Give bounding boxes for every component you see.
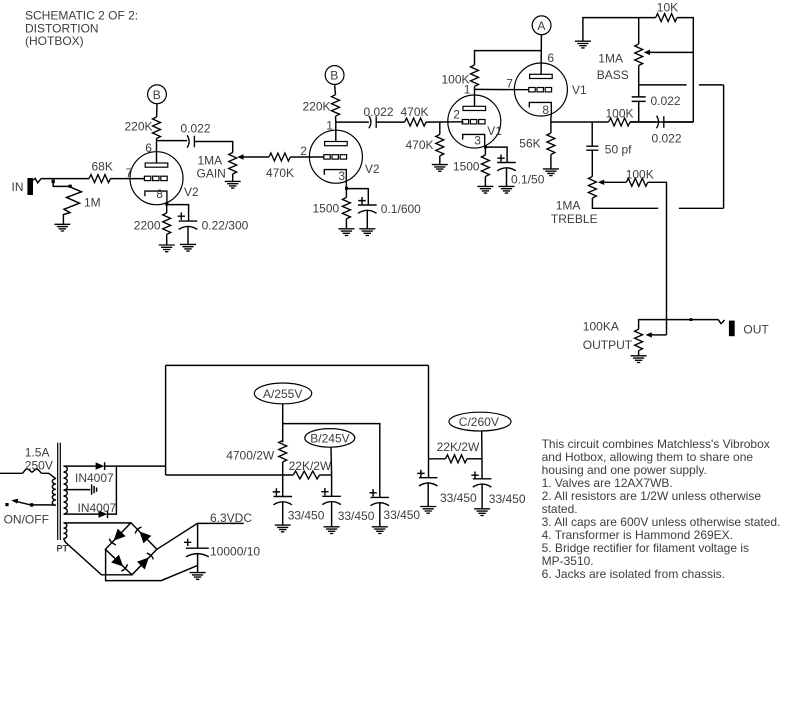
capacitor C 0.022 (1st coupling) xyxy=(181,122,211,148)
wire cap to ground xyxy=(197,554,199,573)
resistor R 100K (treble tap) xyxy=(626,167,654,186)
resistor R 68K xyxy=(89,160,113,183)
wire bridge DC- to filter xyxy=(106,549,198,580)
svg-text:0.022: 0.022 xyxy=(364,105,394,119)
svg-text:1500: 1500 xyxy=(313,202,340,216)
svg-text:2: 2 xyxy=(300,144,307,158)
node B supply (1st stage) xyxy=(148,85,167,104)
wire wiper to 470K xyxy=(243,156,269,158)
wire V1b cathode pin8 down xyxy=(550,117,552,123)
svg-text:IN4007: IN4007 xyxy=(78,501,117,515)
svg-text:TREBLE: TREBLE xyxy=(551,212,598,226)
wire 470K leak to ground xyxy=(439,156,441,165)
svg-text:IN4007: IN4007 xyxy=(75,471,114,485)
svg-text:10K: 10K xyxy=(657,1,678,15)
wire 6.3VDC rail xyxy=(197,511,252,525)
svg-text:0.1/600: 0.1/600 xyxy=(381,202,421,216)
svg-text:1: 1 xyxy=(326,118,333,132)
wire cap to ground xyxy=(506,168,508,187)
resistor R 100K (V1a plate) xyxy=(442,65,479,90)
ground (cap1) xyxy=(275,525,291,532)
resistor R 100K (tone) xyxy=(606,107,634,126)
svg-text:3: 3 xyxy=(338,169,345,183)
diode D2 IN4007 xyxy=(78,501,117,518)
wire output pot top to jack xyxy=(639,320,719,330)
svg-text:GAIN: GAIN xyxy=(197,167,226,181)
svg-text:B/245V: B/245V xyxy=(310,431,349,445)
svg-text:MP-3510.: MP-3510. xyxy=(542,554,594,568)
svg-text:470K: 470K xyxy=(266,166,294,180)
ground (470K leak) xyxy=(432,165,448,172)
capacitor C 0.1/50 xyxy=(497,155,544,187)
wire diode D1 to B+ rail xyxy=(105,465,166,467)
ground (0.1/600) xyxy=(359,229,375,236)
resistor R 22K/2W (C) xyxy=(437,440,480,463)
wire diode D2 up to junction xyxy=(108,466,117,514)
wiper arrow (bass) xyxy=(644,50,694,55)
wire cathode to cap 0.22/300 xyxy=(167,205,189,222)
cathode network V2b: junction node xyxy=(345,187,348,190)
svg-text:B: B xyxy=(330,69,338,83)
transformer PT HV secondary xyxy=(64,466,68,514)
svg-text:1. Valves are 12AX7WB.: 1. Valves are 12AX7WB. xyxy=(542,476,673,490)
transformer PT filament secondary xyxy=(64,523,67,539)
svg-text:0.022: 0.022 xyxy=(651,94,681,108)
wire 220K to plate junction xyxy=(335,116,337,122)
svg-text:PT: PT xyxy=(57,543,69,553)
wiper arrow (gain) xyxy=(237,154,243,159)
svg-text:4. Transformer is Hammond 269E: 4. Transformer is Hammond 269EX. xyxy=(542,528,733,542)
wire cap2 ground xyxy=(331,502,333,527)
svg-text:6.3VDC: 6.3VDC xyxy=(210,511,252,525)
capacitor C 50pf xyxy=(586,122,632,157)
fuse F1 1.5A 250V xyxy=(0,445,53,473)
svg-text:33/450: 33/450 xyxy=(440,491,477,505)
node B/245V xyxy=(305,429,355,448)
svg-text:0.022: 0.022 xyxy=(181,122,211,136)
svg-text:50 pf: 50 pf xyxy=(605,143,632,157)
wire B+ top rail xyxy=(166,364,429,366)
wire top rail down to C section xyxy=(428,365,430,458)
node A/255V xyxy=(254,383,311,404)
wire input to 68K xyxy=(41,178,89,180)
svg-text:0.22/300: 0.22/300 xyxy=(202,219,249,233)
ground (2200) xyxy=(159,245,175,252)
bridge diode (lower right) xyxy=(137,553,153,569)
wire C section junction xyxy=(429,458,446,460)
wire right outer vertical xyxy=(723,85,725,208)
resistor R 2200 xyxy=(134,205,171,234)
wire A to V1b plate pin6 xyxy=(540,35,542,75)
wire B+ bottom rail xyxy=(166,474,294,476)
svg-text:220K: 220K xyxy=(303,100,331,114)
resistor R 10K xyxy=(656,1,679,22)
ground (1500 V1a) xyxy=(477,186,493,193)
wire V1a pin1 to V1b grid pin7 xyxy=(475,88,530,90)
resistor R 1M (diagonal) xyxy=(63,187,100,224)
wire 1500 to ground xyxy=(345,219,347,229)
svg-text:V2: V2 xyxy=(184,185,199,199)
ground (capC) xyxy=(474,509,490,516)
resistor R 470K (grid leak) xyxy=(406,122,444,156)
potentiometer VR 100KA OUTPUT xyxy=(583,320,643,352)
svg-text:0.1/50: 0.1/50 xyxy=(511,173,545,187)
svg-text:3: 3 xyxy=(474,134,481,148)
capacitor C 0.022 (treble) xyxy=(652,116,682,146)
tube V1a xyxy=(448,83,503,149)
ground (output pot) xyxy=(631,356,647,363)
wire bass cap leads xyxy=(638,85,640,122)
svg-text:stated.: stated. xyxy=(542,502,578,516)
potentiometer VR 1MA GAIN xyxy=(197,153,237,181)
wire 50pf to treble pot xyxy=(591,150,593,176)
svg-text:10000/10: 10000/10 xyxy=(210,545,260,559)
wire 1500 to ground xyxy=(484,177,486,187)
resistor R 220K (1st) xyxy=(125,117,161,139)
ground (gain pot) xyxy=(225,181,241,188)
wire 68K to V2 grid xyxy=(111,178,145,180)
capacitor C 0.022 (bass, vertical) xyxy=(632,94,681,108)
tube V2b xyxy=(300,118,380,183)
svg-text:33/450: 33/450 xyxy=(383,508,420,522)
wire fuse to primary xyxy=(42,473,56,478)
bridge diode (lower left) xyxy=(111,555,127,571)
svg-text:housing and one power supply.: housing and one power supply. xyxy=(542,463,707,477)
wire plate junction to cap xyxy=(157,140,188,142)
ground (56K) xyxy=(543,169,559,176)
wiper arrow (output) xyxy=(646,332,667,337)
resistor R 220K (2nd) xyxy=(303,95,340,117)
svg-text:33/450: 33/450 xyxy=(489,492,526,506)
svg-text:1MA: 1MA xyxy=(598,52,623,66)
svg-text:IN: IN xyxy=(12,180,24,194)
svg-text:1MA: 1MA xyxy=(556,199,581,213)
svg-text:22K/2W: 22K/2W xyxy=(289,459,332,473)
svg-text:470K: 470K xyxy=(401,105,429,119)
svg-text:BASS: BASS xyxy=(597,68,629,82)
wire bass bottom across (gap at crossing) xyxy=(639,84,724,86)
wire cap to gain pot xyxy=(194,142,232,153)
resistor R 56K xyxy=(519,122,555,155)
bridge diode (upper left) xyxy=(109,529,125,545)
wire cap4 ground xyxy=(427,483,429,507)
wiper arrow (treble) xyxy=(598,180,626,185)
wire bridge DC+ to 6.3VDC xyxy=(157,523,198,549)
ground (1500 V2b) xyxy=(338,229,354,236)
ground (0.22/300) xyxy=(180,244,196,251)
ground (tone stack top) xyxy=(575,18,656,48)
wire bass pot bottom xyxy=(638,66,640,85)
wire filament bottom to bridge xyxy=(64,539,132,575)
wire treble 100K down to output xyxy=(648,182,667,335)
svg-text:This circuit combines Matchles: This circuit combines Matchless's Vibrob… xyxy=(542,437,770,451)
wire 56K to ground xyxy=(550,155,552,169)
potentiometer VR 1MA TREBLE xyxy=(551,177,598,226)
wire B to 220K xyxy=(156,104,158,117)
svg-text:100K: 100K xyxy=(626,167,654,181)
svg-text:1.5A: 1.5A xyxy=(25,445,50,459)
svg-text:7: 7 xyxy=(506,77,513,91)
capacitor C 0.1/600 xyxy=(358,197,421,216)
tube V2a xyxy=(126,141,199,205)
svg-text:8: 8 xyxy=(542,103,549,117)
svg-text:and Hotbox, allowing them to s: and Hotbox, allowing them to share one xyxy=(542,450,754,464)
transformer center tap to ground xyxy=(66,484,97,494)
wire cap to ground xyxy=(187,226,189,244)
capacitor C 33/450 (4th) xyxy=(417,459,477,505)
ground (cap4) xyxy=(420,507,436,514)
capacitor C 33/450 (C node) xyxy=(471,472,526,506)
resistor R 1500 (V2b) xyxy=(313,184,351,219)
svg-text:3. All caps are 600V unless ot: 3. All caps are 600V unless otherwise st… xyxy=(542,515,781,529)
ground (cap2) xyxy=(324,527,340,534)
svg-text:0.022: 0.022 xyxy=(652,132,682,146)
node on out wire xyxy=(690,318,693,321)
wire B to 220K xyxy=(334,84,337,94)
resistor R 470K (2nd series) xyxy=(401,105,429,126)
svg-text:250V: 250V xyxy=(25,458,53,472)
transformer PT primary winding xyxy=(52,479,56,505)
tube V1b xyxy=(506,51,587,117)
bridge diode (upper right) xyxy=(135,527,151,543)
svg-text:5. Bridge rectifier for filame: 5. Bridge rectifier for filament voltage… xyxy=(542,541,749,555)
wire 100K up and across to A rail xyxy=(475,51,542,65)
wire plate junction to cap xyxy=(336,121,369,123)
wire junction stub xyxy=(53,183,69,187)
capacitor C 0.22/300 xyxy=(178,213,249,233)
wire cap to ground xyxy=(366,210,368,229)
wire cathode to cap 0.1/600 xyxy=(346,189,368,205)
wire HV top to diode xyxy=(64,465,96,467)
svg-text:100K: 100K xyxy=(606,107,634,121)
wire plate lead V2b pin1 xyxy=(335,122,337,142)
node C/260V xyxy=(449,412,511,431)
svg-text:A: A xyxy=(537,19,545,33)
resistor R 4700/2W xyxy=(226,441,287,463)
wire cap3 ground xyxy=(379,503,381,527)
wire HV bottom to diode xyxy=(64,513,99,515)
svg-text:68K: 68K xyxy=(92,160,113,174)
switch SW ON/OFF xyxy=(4,499,49,527)
node stub end xyxy=(69,185,72,188)
svg-text:470K: 470K xyxy=(406,138,434,152)
wire 100K to cap xyxy=(630,121,656,123)
svg-text:33/450: 33/450 xyxy=(338,509,375,523)
svg-text:56K: 56K xyxy=(519,137,540,151)
svg-text:C/260V: C/260V xyxy=(459,415,499,429)
cathode network V2a: junction node xyxy=(165,202,168,205)
potentiometer VR 1MA BASS xyxy=(597,18,643,82)
svg-text:V1: V1 xyxy=(572,83,587,97)
svg-text:220K: 220K xyxy=(125,120,153,134)
svg-text:6: 6 xyxy=(547,51,554,65)
wire 10K to right rail xyxy=(677,18,693,122)
ground (10000/10) xyxy=(190,573,206,580)
svg-text:(HOTBOX): (HOTBOX) xyxy=(25,34,84,48)
wire gain pot to ground xyxy=(232,174,234,181)
svg-text:100K: 100K xyxy=(442,73,470,87)
node B supply (2nd stage) xyxy=(325,66,344,85)
wire capC ground xyxy=(481,484,483,509)
wire cathode to cap 0.1/50 xyxy=(485,147,507,162)
svg-text:1M: 1M xyxy=(84,196,101,210)
svg-text:1MA: 1MA xyxy=(198,154,223,168)
node A supply xyxy=(532,16,551,35)
svg-text:V1: V1 xyxy=(487,124,502,138)
resistor R 1500 (V1a) xyxy=(453,147,490,177)
svg-text:6: 6 xyxy=(145,141,152,155)
svg-text:2200: 2200 xyxy=(134,219,161,233)
capacitor C 0.022 (2nd coupling) xyxy=(364,105,394,128)
wire V1a plate lead pin1 xyxy=(474,89,476,106)
wire A ellipse down xyxy=(282,404,284,443)
bridge rectifier MP-3510 diamond xyxy=(105,523,156,575)
svg-text:1500: 1500 xyxy=(453,160,480,174)
svg-text:A/255V: A/255V xyxy=(263,387,302,401)
wire junction bass cap to signal xyxy=(630,121,693,123)
wire 470K to V1a grid xyxy=(426,121,463,123)
svg-text:7: 7 xyxy=(126,166,133,180)
wire pin8 to tone stack xyxy=(551,121,609,123)
svg-text:6. Jacks are isolated from cha: 6. Jacks are isolated from chassis. xyxy=(542,567,725,581)
capacitor C 10000/10 xyxy=(184,523,260,558)
wire cap1 ground xyxy=(282,502,284,525)
svg-text:4700/2W: 4700/2W xyxy=(226,449,275,463)
ground (cap3) xyxy=(372,527,388,534)
wire cap to right vertical xyxy=(664,121,694,123)
wire 2200 to ground xyxy=(166,234,168,245)
wire 470K to V2b grid xyxy=(290,156,323,158)
svg-text:2. All resistors are 1/2W unle: 2. All resistors are 1/2W unless otherwi… xyxy=(542,489,762,503)
capacitor C 33/450 (2nd) xyxy=(321,475,375,523)
resistor R 470K (series) xyxy=(266,153,294,180)
wire output pot bottom xyxy=(638,351,640,356)
wire 22K to B junction xyxy=(320,474,332,476)
svg-text:33/450: 33/450 xyxy=(288,508,325,522)
wire rectifier B+ vertical xyxy=(165,365,167,475)
wire 22K to C vertical xyxy=(467,458,482,460)
svg-text:V2: V2 xyxy=(365,162,380,176)
transformer PT core xyxy=(57,443,69,554)
svg-text:B: B xyxy=(153,88,161,102)
title text xyxy=(25,9,138,49)
resistor R 22K/2W (A-B) xyxy=(289,459,332,479)
capacitor C 33/450 (1st) xyxy=(273,475,325,522)
wire A junction to third cap xyxy=(283,424,380,498)
ground (0.1/50) xyxy=(499,186,515,193)
wire primary bottom to switch xyxy=(32,504,56,506)
jack J2 OUT xyxy=(718,320,769,337)
wire filament top to bridge xyxy=(64,522,131,524)
ground (1M) xyxy=(54,224,70,231)
svg-text:OUTPUT: OUTPUT xyxy=(583,338,633,352)
capacitor C 33/450 (3rd) xyxy=(369,489,420,522)
svg-text:8: 8 xyxy=(156,187,163,201)
cathode network V1a: junction xyxy=(484,145,487,148)
wire 4700 to B rail xyxy=(282,462,284,475)
wire 220K to plate junction xyxy=(156,139,158,141)
wire cap to 470K xyxy=(376,121,404,123)
wire plate lead V2a pin6 xyxy=(156,141,158,164)
wire treble pot bottom (gap at crossing) xyxy=(592,198,723,208)
diode D1 IN4007 xyxy=(75,462,114,485)
svg-text:22K/2W: 22K/2W xyxy=(437,440,480,454)
svg-text:100KA: 100KA xyxy=(583,320,619,334)
wire C ellipse down to cap xyxy=(481,431,483,479)
wire B ellipse down to junction xyxy=(330,447,333,475)
svg-text:OUT: OUT xyxy=(743,323,769,337)
jack J1 IN xyxy=(12,178,42,195)
svg-text:2: 2 xyxy=(453,108,460,122)
svg-text:ON/OFF: ON/OFF xyxy=(4,513,49,527)
node input junction xyxy=(52,180,55,184)
